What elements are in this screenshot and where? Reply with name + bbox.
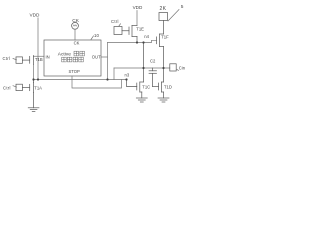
- ground right2: [158, 98, 169, 102]
- svg-text:T1A: T1A: [34, 85, 42, 90]
- wire n3 line: [114, 67, 170, 69]
- node n3: [142, 67, 144, 69]
- ground left: [28, 108, 39, 112]
- node n4: [142, 41, 144, 43]
- wire n3 riser: [113, 68, 115, 80]
- svg-text:STOP: STOP: [69, 69, 81, 74]
- arrow Ctrl2: [13, 86, 17, 87]
- cjk line1 信号: [74, 51, 79, 56]
- pad 2K: [159, 13, 168, 21]
- svg-text:2K: 2K: [160, 6, 167, 12]
- svg-text:T1D: T1D: [164, 85, 172, 90]
- svg-text:Ctrl: Ctrl: [3, 56, 11, 61]
- svg-text:n4: n4: [144, 34, 149, 39]
- arrow Ctrl1: [13, 59, 17, 60]
- transistor T1B (left top): [22, 56, 33, 65]
- junction OUT riser / node line: [106, 78, 108, 80]
- capacitor C2: [149, 68, 157, 87]
- transistor T1C: [127, 43, 144, 99]
- transistor T1D: [153, 68, 164, 98]
- svg-text:CK: CK: [72, 18, 79, 24]
- block U10 Active signal holding circuit: [44, 40, 101, 76]
- svg-text:10: 10: [94, 33, 99, 38]
- pad Ctrl1: [16, 57, 22, 63]
- svg-text:Ctrl: Ctrl: [111, 19, 119, 24]
- svg-text:T1F: T1F: [161, 35, 169, 40]
- ground right1: [136, 98, 147, 102]
- svg-text:VDD: VDD: [133, 5, 143, 10]
- svg-text:5: 5: [181, 4, 184, 10]
- pad Ctrl2: [16, 84, 22, 90]
- wire IN net: [34, 55, 45, 57]
- junction T1F source / n3 line: [162, 67, 164, 69]
- wire CK input: [74, 29, 76, 40]
- svg-text:T1E: T1E: [136, 26, 144, 31]
- clock source CK: [72, 22, 79, 29]
- labels: [30, 4, 184, 38]
- svg-text:CK: CK: [74, 41, 80, 46]
- pad Cin: [170, 64, 176, 71]
- transistor T1F: [157, 21, 164, 69]
- arrow Cin: [177, 70, 179, 71]
- wire OUT riser: [107, 43, 109, 80]
- svg-text:OUT: OUT: [92, 54, 101, 59]
- wire T1B source: [33, 65, 35, 80]
- leader 10: [91, 36, 94, 40]
- transistor T1E: [122, 26, 137, 43]
- leader 5: [168, 10, 179, 22]
- svg-text:C2: C2: [150, 59, 156, 64]
- arrow Ctrl3: [119, 24, 121, 26]
- VDD right riser: [136, 11, 138, 26]
- svg-text:n3: n3: [125, 72, 130, 77]
- junction T1B source / node line: [32, 78, 34, 80]
- bus n4: [108, 40, 157, 42]
- wire STOP loop: [72, 76, 122, 88]
- pad Ctrl3: [114, 27, 122, 35]
- transistor T1A (left bottom): [22, 80, 33, 108]
- svg-text:T1B: T1B: [35, 57, 43, 62]
- wire VDD left riser: [37, 18, 39, 80]
- junction T1E drain / bus n4: [136, 41, 138, 43]
- svg-text:Active: Active: [58, 52, 71, 58]
- wire OUT: [101, 56, 108, 58]
- svg-text:T1C: T1C: [142, 85, 150, 90]
- node line n1: [34, 79, 127, 81]
- svg-text:Cin: Cin: [179, 65, 186, 70]
- svg-text:VDD: VDD: [30, 12, 41, 17]
- svg-text:Ctrl: Ctrl: [3, 86, 11, 91]
- cjk line2 保持电路: [62, 57, 66, 62]
- junction T1C gate / node line: [125, 78, 127, 80]
- svg-text:IN: IN: [46, 54, 50, 59]
- junction VDD riser / node line: [37, 78, 39, 80]
